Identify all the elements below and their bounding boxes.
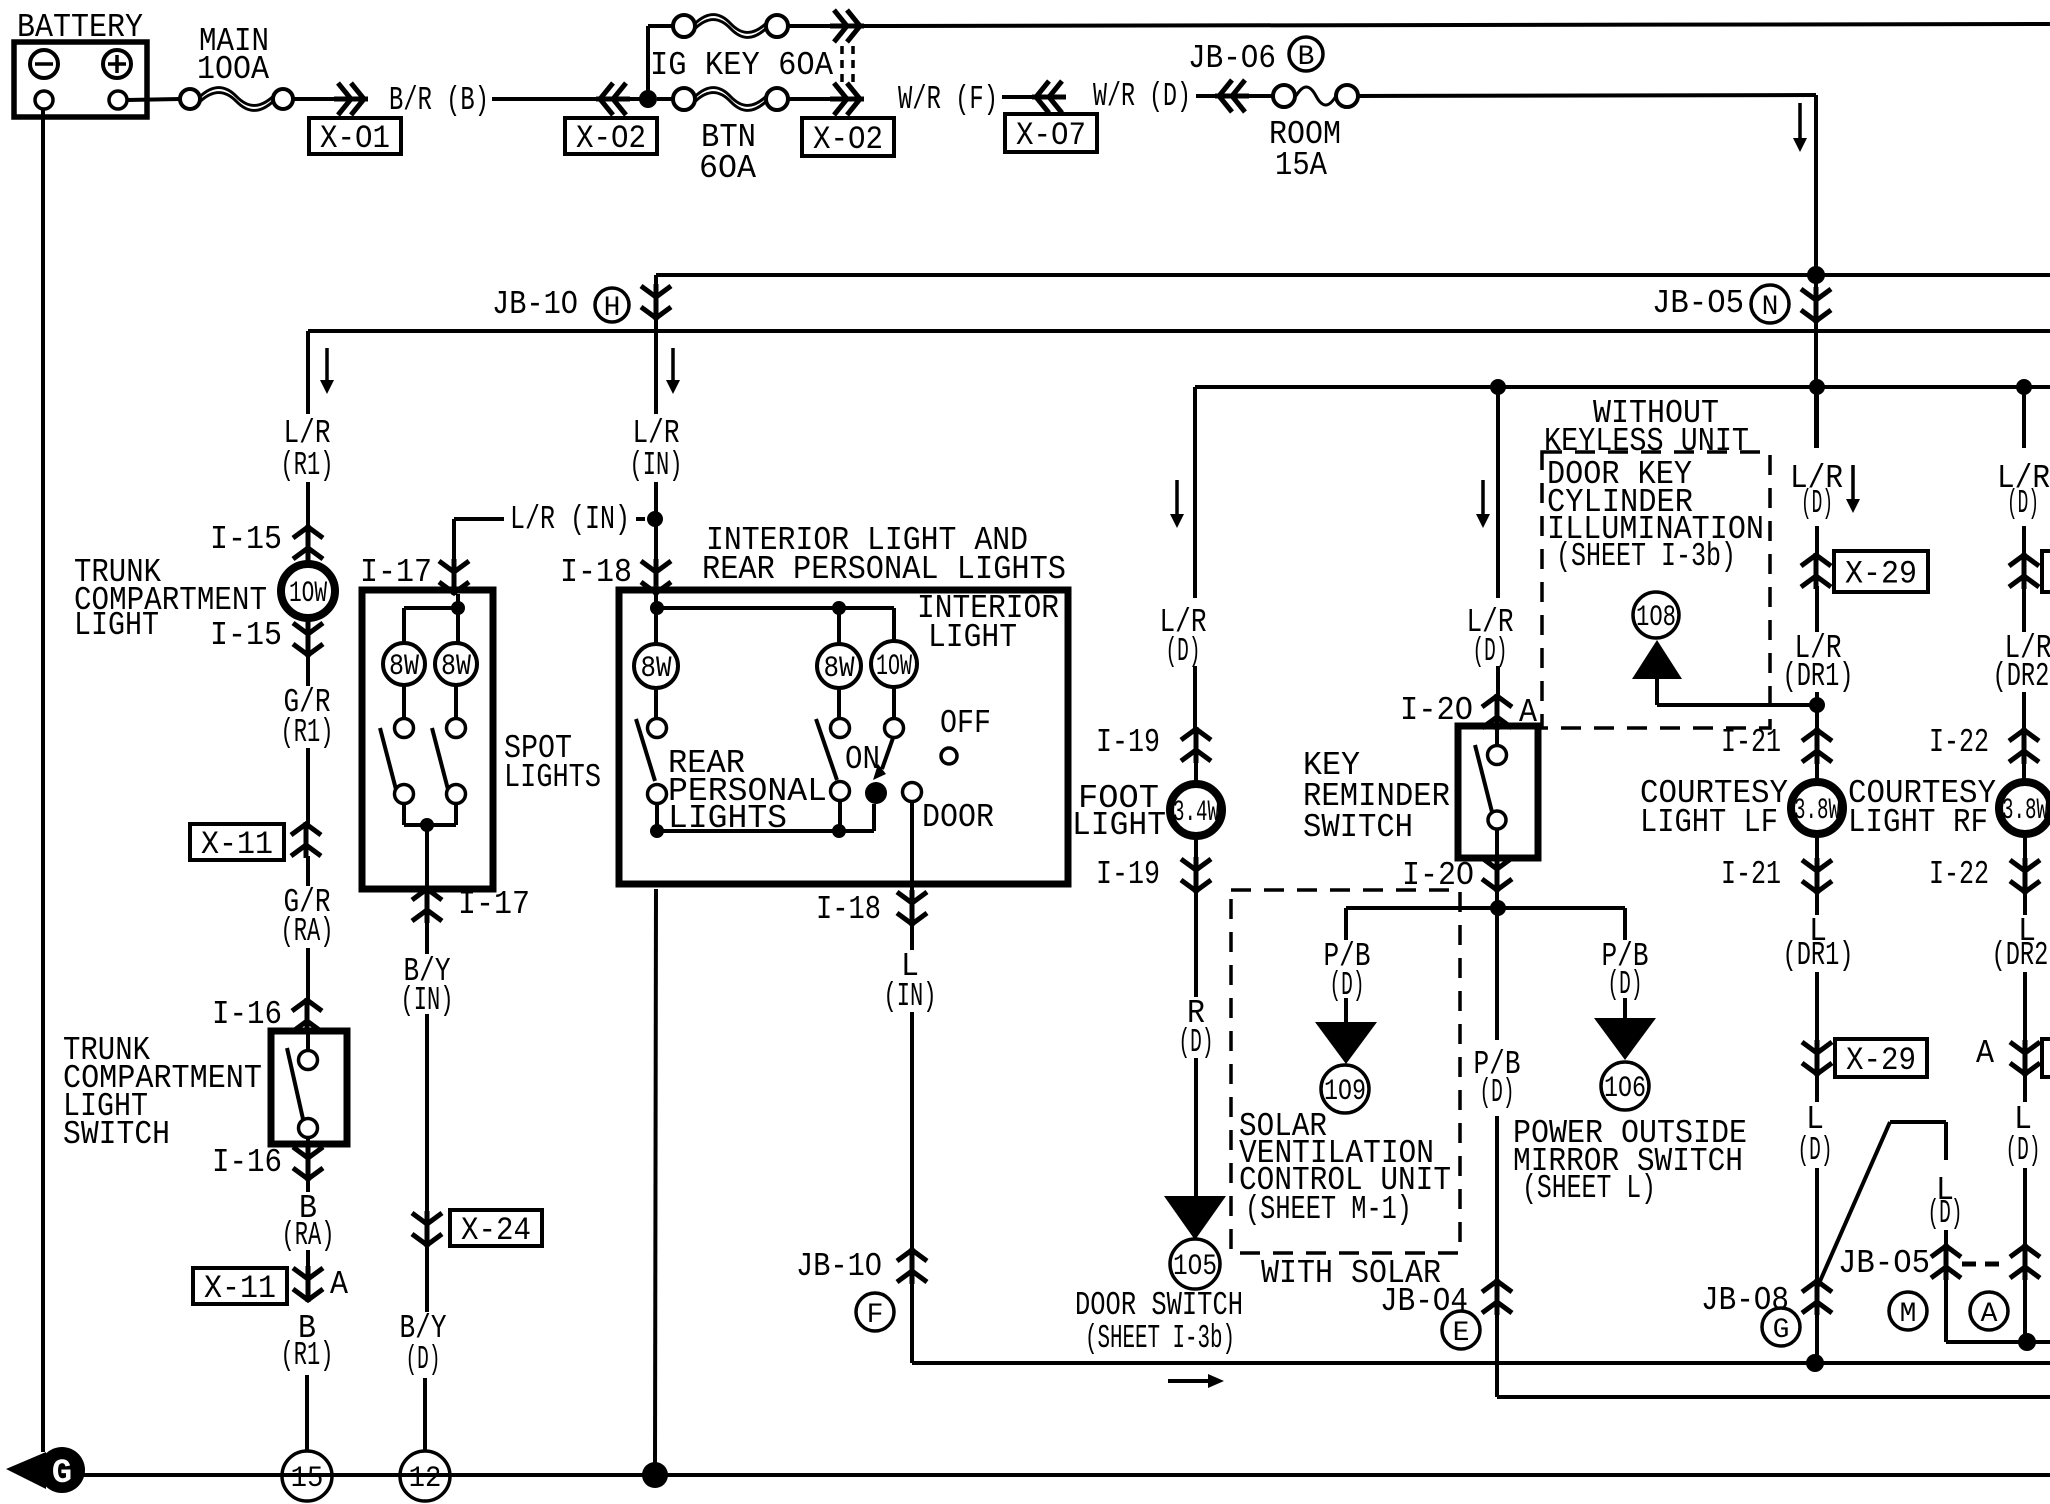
svg-text:JB-O5: JB-O5	[1652, 285, 1744, 322]
connector X-01 box	[309, 118, 401, 154]
svg-text:(D): (D)	[1801, 485, 1833, 522]
connector chevron I-19 upper	[1181, 727, 1211, 763]
wire to offpage 109	[1344, 998, 1348, 1022]
wire stub L/R (IN) label	[454, 517, 504, 521]
svg-text:(SHEET L): (SHEET L)	[1522, 1170, 1656, 1207]
wire stub down to spot lights	[452, 519, 456, 562]
svg-text:I-18: I-18	[560, 554, 632, 591]
lamp courtesy light LF 3.8W	[1791, 782, 1843, 834]
svg-text:LIGHT: LIGHT	[928, 619, 1017, 656]
svg-text:(IN): (IN)	[401, 982, 454, 1019]
svg-text:JB-O5: JB-O5	[1838, 1245, 1930, 1282]
wire mirror branch segment	[1944, 1230, 1948, 1248]
offpage arrow to solar unit	[1315, 1022, 1377, 1064]
ground terminal 12	[400, 1451, 450, 1501]
connector chevron X-02 top right	[830, 10, 864, 42]
wire rail C down (key reminder feed)	[1496, 387, 1500, 598]
lamp courtesy light RF 3.8W	[1999, 782, 2050, 834]
svg-text:(SHEET I-3b): (SHEET I-3b)	[1556, 538, 1736, 575]
connector chevron JB-10 lower	[897, 1248, 927, 1284]
svg-text:DOOR SWITCH: DOOR SWITCH	[1075, 1287, 1243, 1324]
wire R (D) segment	[1194, 1058, 1198, 1196]
wire L (D) segment DR1	[1815, 1168, 1819, 1363]
svg-text:I-21: I-21	[1721, 856, 1781, 893]
junction block label JB-10 F	[856, 1293, 894, 1331]
wire G/R segment	[306, 748, 310, 824]
svg-text:I-17: I-17	[360, 554, 432, 591]
svg-text:X-11: X-11	[201, 826, 273, 863]
connector X-02 box left	[565, 118, 657, 154]
switch trunk compartment light switch	[271, 1031, 347, 1144]
wire spot outputs to bus	[402, 803, 406, 825]
svg-text:(D): (D)	[2006, 1132, 2041, 1169]
node interior bottom bus mid	[832, 824, 846, 838]
wire W/R (F) segment	[1002, 95, 1034, 99]
svg-text:X-O2: X-O2	[813, 121, 883, 158]
svg-text:X-29: X-29	[1845, 556, 1917, 593]
connector chevron JB-05 M	[1931, 1244, 1961, 1280]
node DR1 / 108 junction	[1809, 697, 1825, 713]
wire spot branch left	[404, 606, 458, 610]
svg-text:(DR1): (DR1)	[1783, 937, 1854, 974]
svg-text:(SHEET I-3b): (SHEET I-3b)	[1085, 1320, 1235, 1357]
svg-text:LIGHT: LIGHT	[1072, 807, 1166, 844]
connector chevron X-24	[412, 1211, 442, 1247]
rail B horizontal	[308, 329, 2050, 333]
svg-text:X-11: X-11	[204, 1270, 276, 1307]
wire label B (RA)	[306, 1178, 310, 1192]
svg-text:(D): (D)	[1798, 1132, 1833, 1169]
wire spot feed inside	[456, 594, 460, 643]
connector chevron X-11 lower with pin A	[293, 1266, 323, 1302]
svg-text:1O8: 1O8	[1636, 601, 1676, 635]
connector chevron X-29 upper DR1	[1801, 553, 1831, 589]
node rail C / key column	[1490, 379, 1506, 395]
node main rail junction	[628, 97, 640, 101]
connector chevron I-18 upper	[641, 559, 671, 595]
svg-text:15A: 15A	[1275, 147, 1327, 184]
connector X-29 box upper DR2 (cut)	[2042, 551, 2050, 592]
wire DR1 to X-29	[1815, 526, 1819, 556]
wire label L/R (DR2)	[2022, 586, 2026, 632]
svg-text:12: 12	[409, 1462, 442, 1496]
connector chevron I-19 lower	[1181, 857, 1211, 893]
svg-text:OFF: OFF	[940, 705, 991, 742]
wire G/R (RA) segment	[306, 948, 310, 1000]
flow arrow down DR1	[1851, 465, 1855, 501]
flow arrow down trunk	[325, 348, 329, 382]
wire label B/Y (D)	[425, 1244, 429, 1312]
connector X-29 box lower DR1	[1835, 1039, 1927, 1077]
wire fuse MAIN to connector X-01	[293, 97, 336, 101]
svg-text:X-O1: X-O1	[320, 120, 390, 157]
svg-text:IG KEY 6OA: IG KEY 6OA	[650, 47, 833, 84]
svg-text:X-O7: X-O7	[1016, 117, 1086, 154]
svg-text:X-29: X-29	[1846, 1042, 1916, 1079]
wire DOOR output	[910, 801, 914, 893]
junction block label JB-05 A	[1970, 1292, 2008, 1330]
fuse BTN 60A	[673, 88, 695, 110]
wire to ground terminal 15	[305, 1375, 309, 1452]
offpage arrow to mirror switch	[1594, 1018, 1656, 1060]
svg-text:15: 15	[291, 1462, 324, 1496]
wire B (RA) segment	[306, 1250, 310, 1268]
flow arrow down	[1798, 103, 1802, 140]
wire key switch output	[1495, 889, 1499, 1040]
svg-text:G: G	[52, 1455, 72, 1493]
connector X-02 box right	[802, 118, 894, 156]
svg-text:I-22: I-22	[1929, 856, 1989, 893]
wire foot lamp down	[1194, 838, 1198, 860]
switch spot left	[395, 719, 414, 738]
wire spot output	[425, 825, 429, 889]
svg-text:8W: 8W	[824, 652, 855, 686]
connector chevron I-21 lower	[1802, 858, 1832, 894]
connector chevron I-16 lower	[293, 1145, 323, 1181]
wire label L (D) DR1	[1815, 1073, 1819, 1102]
svg-text:I-19: I-19	[1096, 724, 1160, 761]
ground rail	[80, 1473, 2050, 1477]
svg-text:F: F	[867, 1300, 884, 1331]
wire trunk feed	[306, 482, 310, 528]
svg-text:(R1): (R1)	[281, 447, 334, 484]
svg-text:I-19: I-19	[1096, 856, 1160, 893]
wire B/R (B) segment	[492, 97, 597, 101]
node spot bus	[420, 818, 434, 832]
component box interior light unit	[619, 590, 1068, 884]
wire to BTN fuse	[657, 97, 673, 101]
connector chevron I-17 lower	[412, 887, 442, 923]
wire L (DR2) segment	[2023, 972, 2027, 1043]
svg-text:1OW: 1OW	[876, 650, 912, 684]
svg-text:ON: ON	[845, 741, 880, 778]
connector chevron X-11 upper	[291, 822, 321, 858]
flow arrow down foot	[1175, 480, 1179, 516]
svg-text:8W: 8W	[389, 650, 419, 684]
connector chevron X-29 lower DR2 with pin A	[2010, 1040, 2040, 1076]
wire interior top bus	[657, 606, 894, 610]
connector chevron I-16 upper	[292, 998, 322, 1034]
wire L (DR1) segment	[1815, 972, 1819, 1043]
dashed box solar ventilation control unit	[1231, 890, 1460, 1253]
node spot feed	[451, 601, 465, 615]
connector chevron I-15 upper	[293, 525, 323, 561]
wire rail C down (foot light feed)	[1193, 387, 1197, 598]
ground symbol G	[6, 1452, 46, 1489]
wire to ground terminal 12	[423, 1378, 427, 1452]
connector chevron X-01	[334, 83, 368, 115]
svg-text:LIGHT: LIGHT	[74, 607, 159, 644]
rail A horizontal	[656, 273, 2050, 277]
svg-text:(D): (D)	[1608, 966, 1643, 1003]
node ground tee	[642, 1462, 668, 1488]
connector chevron X-07	[1032, 81, 1066, 113]
wire interior feed	[654, 482, 658, 517]
wire fuse ROOM output	[1358, 95, 1816, 96]
node key output tee	[1490, 900, 1506, 916]
svg-text:(IN): (IN)	[630, 447, 683, 484]
svg-text:(D): (D)	[1473, 633, 1508, 670]
connector chevron X-29 upper DR2	[2009, 553, 2039, 589]
rail D horizontal	[912, 1361, 2050, 1365]
svg-text:G: G	[1773, 1315, 1790, 1346]
lamp trunk compartment light 10W	[281, 564, 335, 618]
node selector common	[865, 782, 887, 804]
wire DR2 to courtesy RF	[2022, 692, 2026, 731]
lamp foot light 3.4W	[1170, 784, 1222, 836]
wire IG KEY fuse to chevron	[788, 24, 832, 28]
wire label L (IN)	[910, 923, 914, 950]
wire to offpage 106	[1623, 998, 1627, 1018]
svg-text:3.8W: 3.8W	[2002, 794, 2048, 828]
wire lamps to contacts	[402, 685, 406, 719]
switch contact 10W feed	[885, 719, 904, 738]
svg-text:8W: 8W	[641, 652, 672, 686]
svg-text:(D): (D)	[1928, 1195, 1963, 1232]
svg-text:A: A	[1981, 1299, 1998, 1330]
connector chevron I-15 lower	[293, 621, 323, 657]
connector chevron I-20 lower	[1482, 856, 1512, 892]
wire to courtesy LF lamp	[1815, 761, 1819, 780]
svg-text:JB-O6: JB-O6	[1188, 40, 1276, 77]
svg-text:I-17: I-17	[458, 886, 530, 923]
wire L (IN) to bottom rail	[910, 1281, 914, 1363]
connector chevron I-18 lower	[897, 890, 927, 926]
switch spot right	[447, 719, 466, 738]
wire battery minus to ground	[41, 109, 45, 1452]
wire IG KEY output rail	[862, 24, 2050, 26]
wire spot bus	[404, 823, 456, 827]
svg-text:E: E	[1453, 1318, 1470, 1349]
connector dashed link M-A	[1962, 1262, 2007, 1267]
wire key column lower segment	[1495, 1116, 1499, 1282]
switch contact OFF	[941, 748, 957, 764]
node rail C / DR2 column	[2016, 379, 2032, 395]
wire courtesy RF down	[2023, 836, 2027, 861]
wire key column to rail E	[1495, 1312, 1499, 1397]
svg-text:LIGHTS: LIGHTS	[504, 759, 601, 796]
svg-text:JB-1O: JB-1O	[492, 286, 578, 323]
wire rail A down (interior feed)	[654, 275, 658, 414]
svg-text:LIGHT RF: LIGHT RF	[1848, 804, 1988, 841]
connector chevron JB-05 A	[2010, 1244, 2040, 1280]
switch key reminder switch	[1458, 726, 1538, 858]
svg-text:LIGHT LF: LIGHT LF	[1640, 804, 1778, 841]
wire label B/Y (IN)	[425, 920, 429, 954]
switch interior ON	[831, 719, 850, 738]
wire diagonal from DR1	[1817, 1122, 1890, 1288]
wire L (D) segment DR2	[2023, 1168, 2027, 1342]
connector chevron JB-10 H	[641, 284, 671, 320]
node rail C / DR1 column	[1809, 379, 1825, 395]
wire top of mirror branch	[1890, 1120, 1946, 1124]
svg-text:8W: 8W	[441, 650, 471, 684]
wire 108 to DR1 column	[1655, 679, 1659, 705]
junction block label JB-08 G	[1762, 1308, 1800, 1346]
battery B1	[14, 42, 147, 117]
svg-text:W/R (D): W/R (D)	[1093, 78, 1191, 115]
svg-text:(D): (D)	[1166, 633, 1201, 670]
rail C horizontal	[1195, 385, 2050, 389]
connector X-29 box upper DR1	[1834, 551, 1928, 592]
wire DR2 to X-29	[2022, 526, 2026, 556]
offpage arrow from door key illumination	[1632, 640, 1682, 679]
svg-text:N: N	[1762, 292, 1779, 323]
wire label R (D)	[1194, 890, 1198, 997]
wire label G/R (RA)	[306, 856, 310, 886]
wire label G/R (R1)	[306, 654, 310, 686]
ground terminal 15	[282, 1451, 332, 1501]
connector X-24 box	[450, 1210, 542, 1246]
svg-text:1OW: 1OW	[289, 577, 327, 611]
wire battery plus to fuse MAIN	[127, 99, 180, 100]
wire key feed	[1496, 666, 1500, 697]
connector X-11 box upper	[190, 824, 284, 860]
svg-text:1O9: 1O9	[1324, 1075, 1366, 1109]
svg-text:(RA): (RA)	[281, 913, 334, 950]
connector chevron JB-05 N	[1801, 287, 1831, 323]
svg-text:(RA): (RA)	[282, 1217, 335, 1254]
svg-text:(D): (D)	[406, 1341, 441, 1378]
svg-text:(R1): (R1)	[281, 714, 334, 751]
node rail A / ROOM feed	[1807, 266, 1825, 284]
wire lamp to chevron	[306, 620, 310, 624]
wire label L (D) DR2	[2023, 1073, 2027, 1102]
wire ON contact down	[838, 800, 842, 831]
wire mirror branch down	[1944, 1122, 1948, 1160]
svg-text:L/R (IN): L/R (IN)	[510, 501, 630, 538]
svg-text:(D): (D)	[1179, 1024, 1214, 1061]
svg-text:H: H	[604, 293, 621, 324]
wire selector common down	[872, 804, 876, 831]
wire corner rail to DR2	[1946, 1340, 2050, 1344]
switch-lamp unit spot lights box	[362, 590, 493, 889]
wire branch bus to P/B columns	[1346, 906, 1625, 910]
svg-text:I-15: I-15	[210, 617, 282, 654]
rail E horizontal	[1497, 1395, 2050, 1399]
svg-text:X-24: X-24	[461, 1212, 531, 1249]
switch rear personal lights	[648, 719, 667, 738]
fuse MAIN 100A	[180, 89, 200, 109]
switch interior selector blade	[882, 738, 893, 769]
svg-text:6OA: 6OA	[699, 150, 756, 187]
wire to courtesy RF lamp	[2022, 761, 2026, 780]
wire branch right P/B (D)	[1623, 908, 1627, 940]
connector chevron I-21 upper	[1802, 728, 1832, 764]
svg-text:M: M	[1900, 1299, 1917, 1330]
dashed box door key cylinder illumination	[1542, 452, 1770, 728]
svg-text:JB-1O: JB-1O	[796, 1248, 882, 1285]
wire to foot lamp	[1194, 760, 1198, 781]
connector chevron I-17 upper	[439, 559, 469, 595]
wire rail B down (trunk feed)	[306, 331, 310, 414]
connector chevron X-02 bottom right	[830, 83, 864, 115]
svg-text:KEYLESS UNIT: KEYLESS UNIT	[1544, 423, 1749, 460]
node L/R (IN) tee	[647, 511, 663, 527]
svg-text:(IN): (IN)	[884, 978, 937, 1015]
wire DR1 to courtesy LF	[1815, 692, 1819, 731]
node interior top bus mid	[832, 601, 846, 615]
wire rear personal output	[655, 803, 659, 831]
svg-text:I-21: I-21	[1721, 724, 1781, 761]
wire interior bottom bus	[657, 829, 874, 833]
svg-text:I-18: I-18	[816, 891, 881, 928]
offpage connector 109	[1321, 1065, 1369, 1113]
wire rail A to rail C (DR1)	[1814, 275, 1818, 448]
svg-text:1OOA: 1OOA	[197, 51, 269, 88]
svg-text:(SHEET M-1): (SHEET M-1)	[1245, 1191, 1412, 1228]
offpage connector 108	[1633, 592, 1679, 638]
svg-text:1O6: 1O6	[1604, 1072, 1646, 1106]
wire interior feed inside	[654, 594, 658, 644]
wire feed to box	[654, 521, 658, 562]
wire chevron to fuse ROOM	[1246, 94, 1273, 98]
lamp spot light right 8W	[435, 643, 477, 685]
connector chevron I-22 upper	[2009, 728, 2039, 764]
svg-text:1O5: 1O5	[1173, 1250, 1217, 1284]
wire label L (DR1)	[1815, 891, 1819, 915]
connector X-02 dashed link	[840, 46, 844, 84]
svg-text:A: A	[1976, 1035, 1994, 1072]
wire down to rail A	[1814, 95, 1818, 275]
wire junction up to IG KEY fuse	[646, 26, 650, 99]
offpage connector 105	[1170, 1239, 1220, 1289]
lamp interior light 8W	[817, 644, 861, 688]
lamp spot light left 8W	[383, 643, 425, 685]
svg-text:W/R (F): W/R (F)	[898, 81, 998, 118]
wire mirror branch to corner	[1944, 1278, 1948, 1342]
svg-text:3.4W: 3.4W	[1173, 796, 1219, 830]
wire foot feed	[1193, 666, 1197, 730]
svg-text:SWITCH: SWITCH	[63, 1116, 170, 1153]
svg-text:X-O2: X-O2	[576, 120, 646, 157]
connector X-07 box	[1005, 114, 1097, 152]
svg-text:SWITCH: SWITCH	[1303, 809, 1413, 846]
connector chevron I-20 upper with pin A	[1482, 694, 1512, 730]
lamp rear personal light 8W (left)	[634, 644, 678, 688]
svg-text:I-16: I-16	[212, 996, 282, 1033]
flow arrow right	[1168, 1379, 1210, 1383]
fuse IG KEY 60A	[648, 24, 672, 28]
junction block label JB-04 E	[1442, 1311, 1480, 1349]
wire branch left P/B (D)	[1344, 908, 1348, 940]
wire drop to middle 8W	[837, 608, 841, 644]
svg-text:(DR1): (DR1)	[1783, 658, 1854, 695]
svg-text:I-16: I-16	[212, 1144, 282, 1181]
offpage connector 106	[1601, 1062, 1649, 1110]
wire rail C down (DR2)	[2022, 387, 2026, 448]
connector chevron JB-08	[1802, 1279, 1832, 1315]
wire B/Y (IN) segment	[425, 1014, 429, 1213]
connector chevron I-22 lower	[2010, 858, 2040, 894]
wire DR1 below rail C	[1815, 387, 1819, 448]
node interior feed left	[650, 601, 664, 615]
svg-text:3.8W: 3.8W	[1794, 794, 1840, 828]
wire BTN fuse to chevron	[788, 97, 832, 101]
connector chevron JB-06	[1215, 80, 1249, 112]
svg-text:REAR PERSONAL LIGHTS: REAR PERSONAL LIGHTS	[702, 551, 1066, 588]
fuse ROOM 15A	[1273, 85, 1295, 107]
svg-text:(DR2): (DR2)	[1992, 937, 2050, 974]
wire courtesy LF down	[1815, 836, 1819, 861]
node interior bottom bus left	[650, 824, 664, 838]
svg-text:A: A	[330, 1266, 348, 1303]
wire W/R (D) segment	[1196, 94, 1216, 98]
flow arrow down key	[1481, 480, 1485, 516]
svg-text:(DR2): (DR2)	[1993, 658, 2050, 695]
svg-text:(D): (D)	[1480, 1074, 1515, 1111]
wire lamps down	[654, 688, 658, 719]
